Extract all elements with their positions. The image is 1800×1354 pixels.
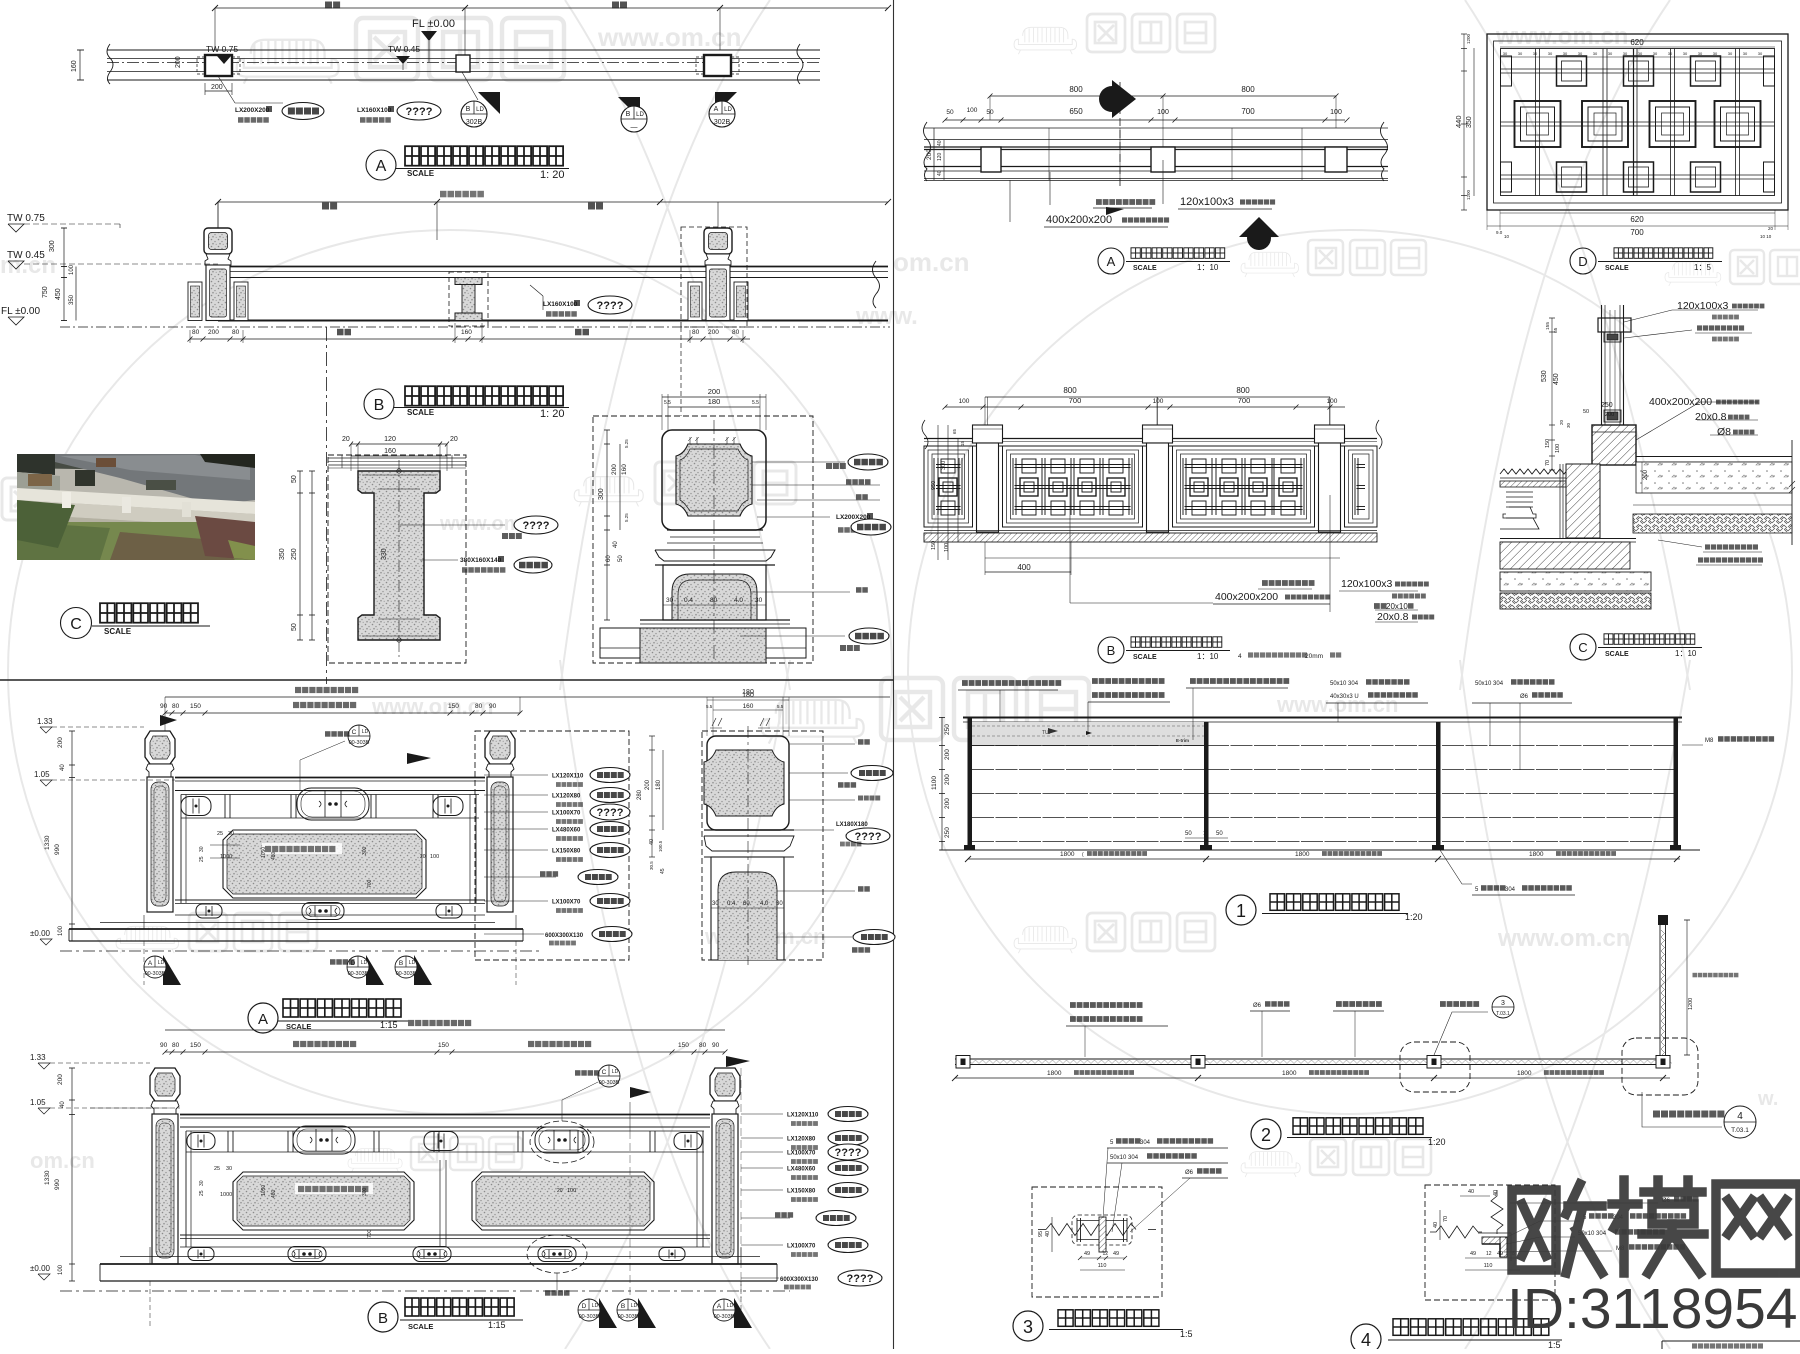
svg-text:950: 950 xyxy=(931,481,937,490)
svg-text:150: 150 xyxy=(448,703,459,710)
svg-text:1800: 1800 xyxy=(1529,851,1544,858)
elevation label LX160X100 xyxy=(542,296,544,310)
stone post cap octagon xyxy=(150,1068,180,1101)
plan post square S1 xyxy=(205,55,232,76)
svg-text:90: 90 xyxy=(489,703,497,710)
svg-text:120: 120 xyxy=(384,436,396,443)
elev3 bottom frieze xyxy=(188,1248,214,1261)
detail3 bottom dims xyxy=(1080,1257,1125,1259)
I-section callouts xyxy=(400,524,505,526)
svg-text:1200: 1200 xyxy=(1466,33,1471,44)
svg-text:200: 200 xyxy=(926,149,933,160)
svg-text:30: 30 xyxy=(1548,51,1553,56)
plan2 corner dim 1200 xyxy=(1686,920,1688,1055)
svg-text:T.03.1: T.03.1 xyxy=(1731,1127,1749,1134)
svg-text:30: 30 xyxy=(1653,51,1658,56)
svg-text:A: A xyxy=(376,158,387,175)
plan2 corner leg vertical xyxy=(1659,925,1661,1056)
svg-text:00-303B: 00-303B xyxy=(618,1314,639,1320)
svg-text:LD: LD xyxy=(361,960,368,966)
post face base xyxy=(640,619,790,621)
svg-text:Ø8: Ø8 xyxy=(1717,426,1731,438)
plan2 corner post xyxy=(1656,1056,1670,1069)
elev3 dashed circle bottom callout xyxy=(527,1235,587,1273)
svg-text:280: 280 xyxy=(637,789,643,800)
svg-text:49: 49 xyxy=(1084,1251,1090,1257)
svg-text:200: 200 xyxy=(175,56,182,68)
svg-text:100: 100 xyxy=(1555,444,1561,453)
plan post square S2 middle xyxy=(456,55,470,72)
cable fence shaded first span xyxy=(972,722,1204,746)
svg-text:400x200x200: 400x200x200 xyxy=(1215,591,1278,603)
svg-text:1100: 1100 xyxy=(931,776,938,790)
elev3 top dim lines xyxy=(165,1029,725,1031)
svg-text:30: 30 xyxy=(712,901,719,907)
svg-text:—: — xyxy=(631,124,638,131)
svg-text:25: 25 xyxy=(214,1166,220,1172)
elev3 ground dashed xyxy=(60,1290,790,1292)
svg-text:300: 300 xyxy=(362,846,368,855)
svg-text:40: 40 xyxy=(649,839,655,845)
svg-text:C: C xyxy=(70,616,82,633)
svg-text:150: 150 xyxy=(1545,439,1551,448)
svg-text:30: 30 xyxy=(776,901,783,907)
section vertical wall hatch xyxy=(1566,464,1600,538)
svg-text:80: 80 xyxy=(732,329,740,336)
svg-text:SCALE: SCALE xyxy=(1605,265,1629,272)
svg-text:20: 20 xyxy=(450,436,458,443)
svg-text:80: 80 xyxy=(475,703,483,710)
svg-text:990: 990 xyxy=(54,844,61,855)
svg-text:om.cn: om.cn xyxy=(893,247,970,277)
stone post cap xyxy=(204,228,232,254)
iron plan label 120x100x3 xyxy=(1162,160,1164,204)
detail4 corner angle plate xyxy=(1482,1237,1507,1244)
svg-text:B: B xyxy=(1107,643,1116,658)
iron plan dim row 800s xyxy=(990,95,1336,97)
plan leader label LX160X100 xyxy=(462,72,478,100)
sheet divider vertical xyxy=(893,0,895,1349)
svg-text:160: 160 xyxy=(461,329,472,336)
iron elev stone pillar xyxy=(973,425,1003,443)
svg-text:LX480X60: LX480X60 xyxy=(787,1167,816,1173)
plan2 post squares xyxy=(956,1056,970,1069)
stone post shaft xyxy=(152,1114,178,1264)
svg-text:200: 200 xyxy=(1643,469,1649,480)
plan2 rail line with zigzag xyxy=(955,1058,1670,1060)
sheet divider horizontal left half xyxy=(0,679,894,681)
stone post cap octagon xyxy=(710,1068,740,1101)
svg-text:1050: 1050 xyxy=(261,1185,267,1196)
svg-text:480: 480 xyxy=(271,1189,277,1198)
elev2 stiles xyxy=(180,795,182,904)
svg-text:30: 30 xyxy=(1698,51,1703,56)
svg-text:620: 620 xyxy=(1630,215,1644,224)
svg-text:TW 0.45: TW 0.45 xyxy=(388,44,420,54)
stone post shaft xyxy=(147,777,173,912)
svg-text:480: 480 xyxy=(271,851,277,860)
svg-text:750: 750 xyxy=(42,286,49,298)
svg-text:2: 2 xyxy=(1261,1125,1271,1145)
svg-text:80: 80 xyxy=(192,329,200,336)
svg-text:5.5: 5.5 xyxy=(664,400,671,406)
iron elev bottom dim 400 xyxy=(985,557,1340,559)
I-section centerline xyxy=(398,460,400,658)
svg-text:B: B xyxy=(399,960,403,967)
post2 cap xyxy=(707,736,789,830)
svg-text:200: 200 xyxy=(708,329,719,336)
iron elev leader left panel xyxy=(1069,487,1071,603)
svg-text:FL ±0.00: FL ±0.00 xyxy=(1,306,40,317)
svg-text:200: 200 xyxy=(57,737,64,748)
svg-text:30: 30 xyxy=(1503,51,1508,56)
svg-text:350: 350 xyxy=(69,294,75,305)
svg-text:302B: 302B xyxy=(714,119,731,126)
svg-text:330: 330 xyxy=(381,548,388,560)
svg-text:30: 30 xyxy=(666,597,674,604)
plan2 leader labels xyxy=(1070,1002,1143,1008)
svg-text:50x10 304: 50x10 304 xyxy=(1330,681,1359,687)
plan dim 200 below S1 xyxy=(204,83,206,95)
svg-text:4.0: 4.0 xyxy=(760,901,769,907)
svg-text:1: 1 xyxy=(1236,901,1246,921)
stone post shaft xyxy=(487,777,513,912)
post face cap outer xyxy=(662,430,766,530)
svg-text:SCALE: SCALE xyxy=(104,627,132,636)
elev3 top rail xyxy=(180,1114,710,1116)
svg-text:30: 30 xyxy=(1668,51,1673,56)
svg-text:50: 50 xyxy=(1185,831,1192,837)
section marker B-LD 302B first xyxy=(478,92,500,114)
svg-text:30: 30 xyxy=(1743,51,1748,56)
cable fence wire lines xyxy=(972,745,1674,747)
svg-text:00-303B: 00-303B xyxy=(714,1314,735,1320)
svg-text:1330: 1330 xyxy=(44,835,51,850)
elev3 left dims xyxy=(71,1068,73,1281)
iron plan posts xyxy=(981,147,1001,172)
elev2 bottom frieze xyxy=(196,904,222,918)
svg-text:530: 530 xyxy=(1541,370,1548,382)
svg-text:20mm: 20mm xyxy=(1305,653,1323,660)
iron elev break marks xyxy=(922,420,928,449)
I-section dashed box xyxy=(328,455,466,663)
svg-text:20x10: 20x10 xyxy=(1386,602,1408,611)
svg-text:300: 300 xyxy=(49,240,56,252)
post face hatch ticks xyxy=(689,437,691,444)
svg-text:15: 15 xyxy=(960,440,965,446)
iron elev lattice panel xyxy=(924,446,973,527)
plan left dim 160 xyxy=(79,50,81,80)
svg-text:20: 20 xyxy=(557,1188,563,1194)
section foundation xyxy=(1500,542,1630,569)
svg-text:±0.00: ±0.00 xyxy=(30,929,51,938)
svg-text:T.03.1: T.03.1 xyxy=(1496,1011,1510,1017)
iron elev base hatched strip xyxy=(924,533,1377,542)
svg-text:700: 700 xyxy=(367,1229,373,1238)
section left dim chain xyxy=(1551,318,1553,470)
svg-text:40: 40 xyxy=(937,170,943,176)
svg-text:1200: 1200 xyxy=(1688,998,1694,1010)
svg-text:250: 250 xyxy=(944,724,951,735)
svg-text:????: ???? xyxy=(406,106,433,118)
svg-text:12: 12 xyxy=(1103,1251,1109,1257)
svg-text:100: 100 xyxy=(1330,109,1342,116)
elev2 lower rail xyxy=(175,899,485,901)
iron plan band lines xyxy=(924,127,1388,129)
iron elev lattice panel xyxy=(1345,446,1378,527)
cable fence posts xyxy=(968,718,973,850)
svg-text:LX100X70: LX100X70 xyxy=(552,811,581,817)
svg-text:70: 70 xyxy=(1545,460,1551,466)
svg-text:304: 304 xyxy=(1505,887,1516,893)
svg-text:30: 30 xyxy=(1728,51,1733,56)
svg-text:100: 100 xyxy=(69,264,75,275)
svg-text:????: ???? xyxy=(597,807,624,819)
leader bottom plate drawing 1 xyxy=(1440,850,1472,884)
stone post centerline xyxy=(717,202,719,228)
section stone base hatched xyxy=(1592,425,1636,465)
svg-text:440: 440 xyxy=(1454,115,1463,128)
iron plan left dims xyxy=(933,128,935,180)
svg-text:45: 45 xyxy=(660,868,666,874)
svg-text:155: 155 xyxy=(1545,322,1551,330)
svg-text:40: 40 xyxy=(1468,1189,1474,1195)
svg-text:TW 0.75: TW 0.75 xyxy=(7,213,45,224)
stone post side balusters xyxy=(688,282,702,321)
plan post square S3 xyxy=(704,55,731,76)
svg-text:00-303B: 00-303B xyxy=(349,740,370,746)
elevation ground line xyxy=(218,320,888,322)
svg-text:100: 100 xyxy=(1153,398,1164,405)
post face bottom dims xyxy=(663,604,766,606)
svg-text:200: 200 xyxy=(1605,412,1614,418)
svg-text:om.cn: om.cn xyxy=(30,1148,95,1173)
stone post cap octagon xyxy=(485,731,515,764)
svg-text:700: 700 xyxy=(367,879,373,888)
svg-text:1.33: 1.33 xyxy=(37,717,53,726)
elevation rail band xyxy=(218,266,888,268)
svg-text:200: 200 xyxy=(57,1074,64,1085)
stone post shaft xyxy=(712,1114,738,1264)
post face neck xyxy=(667,529,763,531)
svg-text:1800: 1800 xyxy=(1047,1070,1062,1077)
section bottom slab lines xyxy=(1500,538,1636,540)
section post lower connector xyxy=(1604,410,1621,422)
svg-text:1:5: 1:5 xyxy=(1180,1329,1193,1339)
svg-text:400x200x200: 400x200x200 xyxy=(1046,214,1112,226)
svg-text:12: 12 xyxy=(1486,1251,1492,1257)
svg-text:100: 100 xyxy=(967,107,978,114)
detail4 cable zigzags xyxy=(1430,1226,1482,1238)
svg-text:50: 50 xyxy=(291,623,298,631)
svg-text:4.0: 4.0 xyxy=(734,597,743,604)
svg-text:110: 110 xyxy=(1098,1263,1107,1269)
svg-text:B: B xyxy=(626,111,631,118)
svg-text:120: 120 xyxy=(937,152,943,161)
plan2 corner callout xyxy=(1642,1092,1722,1127)
elev2 left dims xyxy=(71,731,73,941)
svg-text:20x0.8: 20x0.8 xyxy=(1377,611,1409,623)
elev2 right callout labels xyxy=(484,774,548,776)
title A2 iron plan xyxy=(1098,248,1124,274)
svg-text:30: 30 xyxy=(199,1180,205,1186)
svg-text:4: 4 xyxy=(1361,1330,1371,1349)
svg-text:LD: LD xyxy=(592,1303,599,1309)
svg-text:120x100x3: 120x100x3 xyxy=(1341,578,1393,590)
iron elev leader right labels xyxy=(1329,495,1331,612)
iron plan label steel fixing xyxy=(1096,199,1155,205)
svg-text:150: 150 xyxy=(190,703,201,710)
svg-text:TW 0.45: TW 0.45 xyxy=(7,250,45,261)
detail3 left dims xyxy=(1051,1217,1053,1252)
svg-text:350: 350 xyxy=(279,548,286,560)
svg-text:30: 30 xyxy=(1638,51,1643,56)
svg-text:LX120X80: LX120X80 xyxy=(787,1137,816,1143)
I-section shape xyxy=(358,471,440,640)
svg-text:1：10: 1：10 xyxy=(1675,649,1697,658)
svg-text:D: D xyxy=(582,1303,587,1310)
svg-text:400: 400 xyxy=(1017,563,1031,572)
svg-text:80: 80 xyxy=(232,329,240,336)
svg-text:1000: 1000 xyxy=(220,1192,232,1198)
svg-text:990: 990 xyxy=(54,1179,61,1190)
title A3 xyxy=(248,1003,278,1033)
svg-text:B: B xyxy=(374,397,385,414)
stone post cap octagon xyxy=(145,731,175,764)
iron plan break marks xyxy=(924,122,931,181)
svg-text:110: 110 xyxy=(1484,1263,1493,1269)
stone post neck xyxy=(705,254,731,265)
svg-text:380X160X140: 380X160X140 xyxy=(460,557,502,564)
svg-text:100: 100 xyxy=(430,854,439,860)
svg-text:www.om.cn: www.om.cn xyxy=(1497,925,1630,952)
lattice top dims xyxy=(1500,46,1775,48)
svg-text:40: 40 xyxy=(1433,1222,1439,1228)
plan2 dim line 1800s xyxy=(955,1077,1670,1079)
elev3 base slab xyxy=(120,1256,760,1258)
svg-text:25: 25 xyxy=(199,856,205,862)
svg-text:LX120X80: LX120X80 xyxy=(552,794,581,800)
svg-text:LX160X100: LX160X100 xyxy=(357,107,392,114)
svg-text:200: 200 xyxy=(211,84,223,91)
svg-text:80: 80 xyxy=(710,597,718,604)
post2 flare xyxy=(704,829,794,831)
svg-text:20: 20 xyxy=(420,854,426,860)
svg-text:302B: 302B xyxy=(466,119,483,126)
iron elev top rail xyxy=(924,438,1377,440)
svg-text:4: 4 xyxy=(1238,653,1242,660)
svg-text:D: D xyxy=(1578,254,1587,269)
I-section rail lines above xyxy=(328,457,466,459)
svg-text:TU7: TU7 xyxy=(1042,730,1052,736)
dashed box around middle baluster xyxy=(449,272,488,326)
svg-text:40x30x3 U: 40x30x3 U xyxy=(1330,694,1359,700)
svg-text:304: 304 xyxy=(1140,1140,1151,1146)
section cut dash line vertical xyxy=(326,327,328,684)
elev3 stiles xyxy=(185,1131,187,1247)
post2 dashed box xyxy=(702,731,823,960)
section steel post xyxy=(1601,305,1603,425)
post2 callouts right xyxy=(789,743,855,745)
svg-text:LD: LD xyxy=(612,1069,619,1075)
lattice left dims xyxy=(1463,34,1465,210)
svg-text:B: B xyxy=(466,106,471,113)
svg-text:30: 30 xyxy=(228,831,234,837)
svg-text:40: 40 xyxy=(1045,1231,1051,1237)
elev2 marker C top xyxy=(325,731,350,737)
svg-text:200: 200 xyxy=(208,329,219,336)
svg-text:1800: 1800 xyxy=(1282,1070,1297,1077)
iron elev stone pillar xyxy=(1143,425,1173,443)
svg-text:65: 65 xyxy=(952,428,957,434)
cable fence left dims xyxy=(941,717,943,850)
svg-text:700: 700 xyxy=(1241,107,1255,116)
svg-text:Ø6: Ø6 xyxy=(1185,1170,1194,1176)
cable fence top rail xyxy=(963,717,1682,719)
post2 shaft xyxy=(711,857,784,960)
svg-text:????: ???? xyxy=(847,1273,874,1285)
svg-text:250: 250 xyxy=(291,548,298,560)
svg-text:B: B xyxy=(621,1303,625,1310)
svg-text:LX120X110: LX120X110 xyxy=(552,774,584,780)
svg-text:1.33: 1.33 xyxy=(30,1053,46,1062)
svg-text:100: 100 xyxy=(58,925,64,936)
svg-text:LX100X70: LX100X70 xyxy=(787,1244,816,1250)
elev2 flag markers xyxy=(160,715,177,731)
svg-text:40: 40 xyxy=(60,764,66,771)
cable fence ground line xyxy=(940,849,1700,851)
svg-text:450: 450 xyxy=(1553,373,1560,385)
svg-text:30: 30 xyxy=(199,846,205,852)
svg-text:SCALE: SCALE xyxy=(407,408,435,417)
svg-text:350: 350 xyxy=(1466,116,1473,128)
post face centerline xyxy=(713,420,715,663)
svg-text:C: C xyxy=(1578,640,1587,655)
large dark watermark oumou logo xyxy=(1512,1180,1800,1273)
svg-text:30: 30 xyxy=(1563,51,1568,56)
svg-text:LD: LD xyxy=(724,107,732,113)
svg-text:250: 250 xyxy=(1601,402,1613,409)
svg-text:30: 30 xyxy=(1608,51,1613,56)
I-section top dims xyxy=(351,443,447,445)
svg-text:1330: 1330 xyxy=(44,1170,51,1185)
detail3 dashed box xyxy=(1032,1187,1162,1297)
svg-text:LD: LD xyxy=(727,1303,734,1309)
elev3 frieze xyxy=(186,1130,704,1132)
svg-text:700: 700 xyxy=(1069,396,1082,405)
svg-text:120x100x3: 120x100x3 xyxy=(1180,196,1234,208)
plan leader label LX200X200 xyxy=(218,76,235,103)
svg-text:65: 65 xyxy=(1553,327,1559,333)
elevation bottom dims xyxy=(190,338,750,340)
svg-text:LD: LD xyxy=(362,729,369,735)
svg-text:1：10: 1：10 xyxy=(1197,263,1219,272)
svg-text:1800: 1800 xyxy=(1295,851,1310,858)
svg-text:30: 30 xyxy=(1566,422,1571,428)
stone post neck xyxy=(711,1101,739,1114)
svg-text:00-303B: 00-303B xyxy=(396,971,417,977)
svg-text:4: 4 xyxy=(1737,1111,1743,1122)
svg-text:20x0.8: 20x0.8 xyxy=(1695,411,1727,423)
elevation middle baluster I-shape xyxy=(455,278,482,285)
stone post cap xyxy=(704,228,732,254)
elev2 bottom section markers xyxy=(163,955,181,985)
svg-text:00-303B: 00-303B xyxy=(599,1080,620,1086)
svg-text:95: 95 xyxy=(1038,1231,1044,1237)
svg-text:1200: 1200 xyxy=(1466,189,1471,200)
svg-text:20: 20 xyxy=(342,436,350,443)
title C2 iron section xyxy=(1570,634,1596,660)
